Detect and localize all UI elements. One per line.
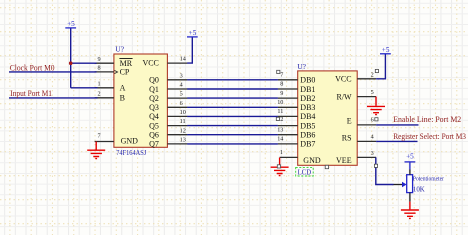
svg-text:MR: MR	[120, 59, 133, 68]
svg-text:VCC: VCC	[335, 75, 351, 84]
svg-text:Potentiometer: Potentiometer	[413, 176, 445, 183]
svg-text:5: 5	[371, 89, 374, 96]
svg-text:Q5: Q5	[149, 121, 159, 130]
svg-text:13: 13	[180, 137, 186, 144]
svg-text:E: E	[347, 117, 352, 126]
svg-text:74F164ASJ: 74F164ASJ	[116, 148, 146, 157]
svg-text:14: 14	[180, 56, 186, 63]
svg-text:+5: +5	[67, 20, 75, 28]
svg-text:Input Port M1: Input Port M1	[10, 89, 52, 98]
svg-text:2: 2	[280, 116, 283, 123]
svg-text:9: 9	[98, 56, 101, 63]
svg-text:3: 3	[371, 150, 374, 157]
svg-text:9: 9	[280, 90, 283, 97]
svg-text:DB7: DB7	[300, 140, 315, 149]
svg-text:DB1: DB1	[300, 85, 315, 94]
svg-text:B: B	[120, 94, 125, 103]
svg-text:CP: CP	[120, 68, 130, 77]
svg-text:+5: +5	[382, 46, 390, 54]
svg-text:1: 1	[98, 80, 101, 87]
svg-text:DB6: DB6	[300, 131, 315, 140]
svg-text:Q2: Q2	[149, 94, 159, 103]
svg-text:Q0: Q0	[149, 76, 159, 85]
svg-text:U?: U?	[297, 62, 306, 71]
svg-text:+5: +5	[406, 152, 414, 160]
svg-text:8: 8	[280, 81, 283, 88]
svg-text:Q1: Q1	[149, 85, 159, 94]
svg-text:Enable Line: Port M2: Enable Line: Port M2	[393, 115, 461, 124]
svg-text:VCC: VCC	[142, 59, 158, 68]
svg-text:Register Select: Port M3: Register Select: Port M3	[393, 132, 466, 141]
svg-text:DB5: DB5	[300, 121, 315, 130]
svg-text:VEE: VEE	[336, 156, 352, 165]
svg-text:6: 6	[371, 117, 374, 124]
svg-text:Q3: Q3	[149, 103, 159, 112]
svg-text:10: 10	[277, 99, 283, 106]
svg-text:13: 13	[277, 127, 283, 134]
svg-text:3: 3	[180, 72, 183, 79]
svg-text:1: 1	[280, 149, 283, 156]
svg-text:14: 14	[277, 136, 283, 143]
svg-text:DB0: DB0	[300, 76, 315, 85]
svg-text:U?: U?	[115, 44, 124, 53]
svg-text:Q6: Q6	[149, 131, 159, 140]
svg-text:DB4: DB4	[300, 112, 315, 121]
svg-text:DB3: DB3	[300, 103, 315, 112]
svg-text:8: 8	[98, 65, 101, 72]
svg-text:12: 12	[180, 127, 186, 134]
svg-text:10: 10	[180, 109, 186, 116]
svg-text:11: 11	[277, 108, 283, 115]
svg-text:2: 2	[371, 71, 374, 78]
svg-text:11: 11	[180, 118, 186, 125]
svg-text:5: 5	[180, 91, 183, 98]
svg-text:+5: +5	[189, 29, 197, 37]
svg-text:4: 4	[180, 82, 183, 89]
svg-text:4: 4	[371, 133, 374, 140]
svg-text:10K: 10K	[413, 187, 425, 194]
svg-text:Q7: Q7	[149, 140, 159, 149]
svg-text:Clock Port M0: Clock Port M0	[10, 63, 55, 72]
svg-text:6: 6	[180, 100, 183, 107]
svg-text:2: 2	[98, 90, 101, 97]
svg-text:DB2: DB2	[300, 94, 315, 103]
svg-text:7: 7	[280, 71, 283, 78]
svg-text:7: 7	[98, 132, 101, 139]
svg-text:GND: GND	[121, 137, 139, 146]
svg-text:Q4: Q4	[149, 112, 159, 121]
svg-text:A: A	[120, 84, 126, 93]
svg-text:R/W: R/W	[336, 92, 352, 101]
svg-text:LCD: LCD	[298, 168, 312, 177]
svg-text:RS: RS	[342, 133, 352, 142]
svg-text:GND: GND	[303, 156, 321, 165]
